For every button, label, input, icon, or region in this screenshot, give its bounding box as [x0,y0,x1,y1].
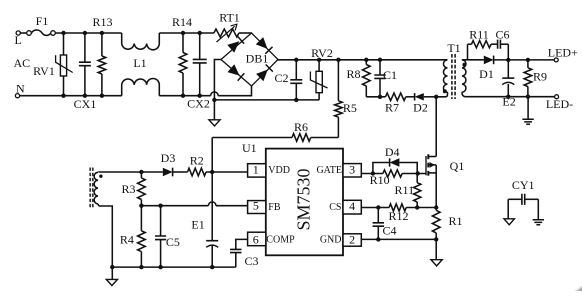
wire drain column [435,97,437,157]
svg-text:R3: R3 [121,182,135,196]
corner mark [578,288,582,292]
wire secondary top lead [462,59,484,61]
diode D2 [415,93,424,100]
svg-text:COMP: COMP [266,235,295,246]
svg-text:GATE: GATE [316,165,342,176]
ground primary left [106,279,117,285]
svg-text:CX1: CX1 [74,97,97,111]
node RV1 bottom [61,94,65,98]
varistor RV2 [318,60,320,72]
resistor R13 [101,33,103,56]
resistor R3 [140,172,142,178]
svg-text:C6: C6 [495,27,509,41]
svg-text:R13: R13 [92,15,112,29]
node gate node [416,171,420,175]
node drain [434,95,438,99]
svg-text:LED+: LED+ [548,46,578,60]
resistor R14 [182,33,184,53]
node R5 top [336,58,340,62]
transistor Q1 [425,156,427,175]
wire GND line [361,238,436,240]
capacitor C6 [491,43,498,45]
resistor R12 [389,204,406,211]
earth ground CY1 right [533,220,544,225]
wire FB line [141,205,208,207]
terminal N [15,94,19,98]
diode D4 branch [373,163,390,174]
bridge diode lower-left [228,64,240,75]
node R8 top [364,58,368,62]
wire DB1 left corner to ground line [214,60,221,120]
wire hop over ground line [211,92,219,96]
svg-text:F1: F1 [36,14,49,28]
resistor R11 snubber [468,43,472,45]
ground primary near DB1 [209,120,220,126]
svg-text:RV1: RV1 [33,64,55,78]
svg-text:CY1: CY1 [512,178,535,192]
svg-text:SM7530: SM7530 [293,168,313,230]
wire snubber right vertical [507,44,509,60]
svg-text:C2: C2 [274,71,288,85]
terminal LED- [555,95,559,99]
resistor R4 [140,206,142,231]
resistor R11 gate [416,174,418,183]
wire source column [435,165,437,208]
transformer T1 core [452,54,455,99]
inductor L1 bottom winding [122,79,160,96]
capacitor C2 [295,60,297,80]
svg-text:D1: D1 [479,67,494,81]
node R3 top [139,170,143,174]
svg-text:R8: R8 [346,67,360,81]
svg-text:R4: R4 [120,233,134,247]
wire bottom AC rail [20,95,122,97]
svg-text:R1: R1 [448,214,462,228]
wire top AC rail [55,32,121,34]
svg-text:R11: R11 [395,183,415,197]
wire aux bottom lead [98,204,112,267]
wire R6 to VDD node [211,138,213,173]
svg-text:R9: R9 [533,70,547,84]
wire CS line [361,207,389,209]
svg-text:3: 3 [349,163,355,177]
svg-text:R14: R14 [172,15,192,29]
svg-text:AC: AC [13,56,30,70]
node RV2 top [317,58,321,62]
capacitor CX2 [199,33,201,59]
svg-text:GND: GND [320,235,342,246]
bridge rectifier DB1 outline [221,33,278,86]
svg-text:T1: T1 [447,41,460,55]
wire bottom rail to DB1 [218,86,251,96]
svg-text:U1: U1 [242,141,257,155]
wire snubber bus [366,96,385,98]
wire secondary bottom lead [462,92,555,97]
resistor R2 [173,171,188,173]
wire D2 to drain node [424,96,436,98]
wire L terminal to fuse [20,32,26,34]
node C5 top [158,204,162,208]
wire CY1 left [507,199,509,219]
wire gnd stub [111,267,113,279]
pin 4 box [343,200,361,214]
ground CY1 left [504,219,514,225]
node R3 bottom [139,204,143,208]
pin 5 box [248,201,266,214]
resistor R5 [337,60,339,101]
pin 2 box [343,234,361,246]
T1 primary polarity dot [443,89,447,93]
node CX2 bottom [198,94,202,98]
wire FB hop over E1 [208,202,216,206]
wire FB to pin 5 [216,205,248,207]
svg-text:D3: D3 [161,151,176,165]
svg-text:R5: R5 [343,101,357,115]
node E2 bottom [506,95,510,99]
svg-text:R7: R7 [385,100,399,114]
node CX1 top [83,31,87,35]
svg-text:1: 1 [253,162,259,176]
svg-text:FB: FB [268,202,281,213]
node VDD junction [210,170,214,174]
node R9 top [526,58,530,62]
aux winding core [90,168,93,209]
capacitor E1 [211,172,213,241]
wire D1 to LED+ [494,59,555,61]
svg-text:Q1: Q1 [450,159,465,173]
capacitor C4 [377,208,379,223]
node R13 top [100,31,104,35]
terminal L [16,31,20,35]
svg-text:N: N [16,82,25,96]
node C1 bottom [378,95,382,99]
diode D3 [163,168,173,177]
node aux gnd [110,265,114,269]
node E1 bottom [210,265,214,269]
svg-text:6: 6 [253,232,259,246]
svg-text:D4: D4 [385,145,400,159]
node R9 bottom [526,95,530,99]
svg-text:2: 2 [349,233,355,247]
capacitor CY1 [508,198,522,200]
svg-text:CS: CS [329,202,341,213]
transformer T1 primary winding [443,60,447,92]
svg-text:DB1: DB1 [246,52,269,66]
capacitor C1 [379,60,381,75]
resistor R6 [212,137,292,139]
svg-text:R10: R10 [370,173,390,187]
node C2 top [294,58,298,62]
wire pin3 to R10 [361,173,383,175]
node R4 bottom [139,265,143,269]
svg-text:C5: C5 [166,235,180,249]
svg-text:R2: R2 [190,153,204,167]
op-amp U1 SM7530 body [266,149,343,256]
node C4 bottom [376,237,380,241]
aux winding [94,172,98,204]
node E2 top [506,58,510,62]
bridge diode upper-right [256,37,268,49]
resistor R8 [365,60,367,65]
wire left ground bus [112,266,236,268]
wire snubber left vertical [467,44,469,60]
wire drain node to T1 primary [436,92,447,97]
wire CY1 right [537,199,539,219]
resistor R9 [527,60,529,68]
wire aux top lead [98,171,163,173]
svg-text:L1: L1 [133,56,146,70]
node DC minus [212,98,216,102]
wire DC+ rail [278,59,448,61]
resistor R1 [435,208,437,211]
node CX2 top [198,31,202,35]
varistor RV1 [63,33,65,55]
node R14 top [181,31,185,35]
terminal LED+ [554,58,558,62]
svg-text:D2: D2 [413,100,428,114]
svg-text:CX2: CX2 [187,97,210,111]
node C4 top [376,205,380,209]
node R11 bottom [415,205,419,209]
svg-text:L: L [15,33,22,47]
capacitor E2 [507,60,509,78]
capacitor C3 [236,239,248,249]
svg-text:RV2: RV2 [311,46,333,60]
node RV1 top [61,31,65,35]
aux polarity dot [99,175,102,178]
svg-text:C3: C3 [244,254,258,268]
svg-text:LED-: LED- [546,97,573,111]
svg-text:R6: R6 [294,120,308,134]
svg-text:C4: C4 [382,224,396,238]
svg-text:R12: R12 [388,209,408,223]
svg-text:C1: C1 [383,68,397,82]
node R14 bottom [181,94,185,98]
resistor R7 [386,93,406,101]
capacitor C5 [160,206,162,236]
bridge diode lower-right [256,70,268,82]
node R13 bottom [100,94,104,98]
svg-text:R11: R11 [469,27,489,41]
inductor L1 top winding [122,33,160,50]
diode D1 [484,56,494,65]
node source-CS [434,205,438,209]
fuse F1 [27,31,32,36]
diode D4 [390,158,400,166]
wire primary ground bus [214,99,319,101]
pin 6 box [248,232,266,246]
wire to secondary earth [527,97,529,119]
svg-text:4: 4 [349,199,355,213]
wire gnd stub R1 [435,239,437,259]
T1 secondary polarity dot [462,63,466,67]
node gate split [371,171,375,175]
svg-text:E1: E1 [191,218,204,232]
capacitor CX1 [84,33,86,62]
node CX1 bottom [83,94,87,98]
svg-text:VDD: VDD [268,165,290,176]
resistor R10 [383,170,402,177]
node R1 bottom [434,237,438,241]
earth ground secondary [522,119,533,124]
node C1 top [378,58,382,62]
bridge diode upper-left [227,41,239,53]
thermistor RT1 [214,29,239,37]
pin 1 box [248,164,266,177]
svg-text:5: 5 [253,199,259,213]
node C2 bottom [294,98,298,102]
ground primary right [431,260,442,266]
svg-text:RT1: RT1 [219,11,240,25]
node C5 bottom [158,265,162,269]
transformer T1 secondary winding [462,60,466,92]
pin 3 box [343,164,361,177]
